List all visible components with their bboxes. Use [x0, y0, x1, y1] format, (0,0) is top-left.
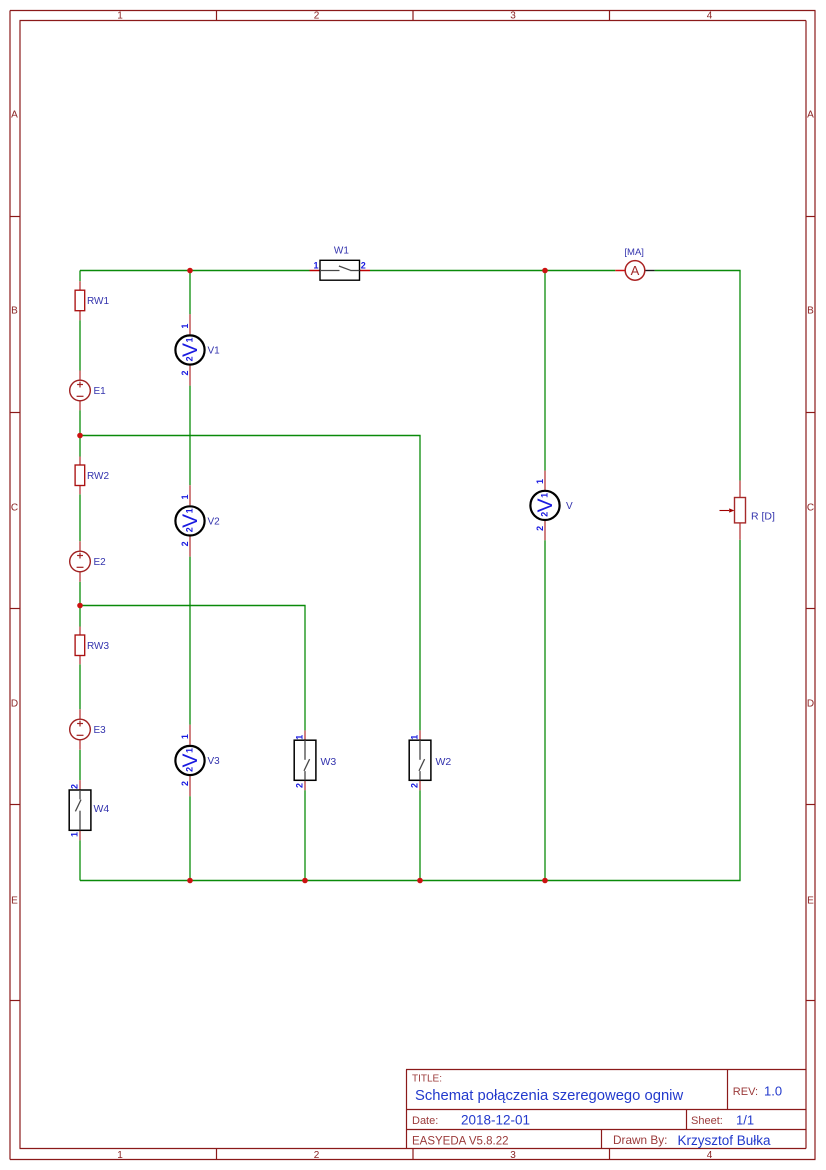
svg-text:RW1: RW1	[87, 296, 109, 307]
svg-text:B: B	[807, 306, 814, 317]
svg-text:1: 1	[180, 324, 190, 329]
svg-text:W4: W4	[94, 803, 110, 815]
voltmeter V1	[175, 314, 220, 385]
junction left wire at rail2	[77, 433, 83, 439]
svg-text:3: 3	[510, 11, 516, 22]
svg-text:A: A	[807, 110, 814, 121]
svg-text:E2: E2	[94, 557, 107, 568]
svg-text:V: V	[566, 501, 573, 512]
wire top rail left segment	[80, 270, 310, 272]
svg-text:V3: V3	[208, 756, 221, 767]
wire W2 column: rail2 to W2	[419, 436, 421, 731]
junction top rail at x=545	[542, 268, 548, 274]
svg-text:W2: W2	[436, 756, 452, 768]
wire rail2 horizontal	[80, 435, 421, 437]
svg-text:R [D]: R [D]	[751, 511, 775, 523]
svg-text:RW3: RW3	[87, 641, 109, 652]
svg-text:1: 1	[409, 735, 419, 740]
junction bottom rail at x=545	[542, 878, 548, 884]
svg-text:2: 2	[184, 767, 194, 772]
wire left column: RW3 to E3	[79, 664, 81, 709]
voltmeter V2	[175, 485, 220, 556]
svg-text:1: 1	[540, 493, 550, 498]
svg-text:1: 1	[180, 734, 190, 739]
svg-text:2: 2	[409, 783, 419, 788]
svg-text:Krzysztof Bułka: Krzysztof Bułka	[678, 1133, 772, 1148]
wire left column: top rail to RW1	[79, 271, 81, 282]
resistor RW1	[75, 281, 109, 320]
resistor RW2	[75, 457, 109, 495]
svg-text:Sheet:: Sheet:	[691, 1115, 723, 1127]
svg-text:1/1: 1/1	[736, 1112, 754, 1127]
svg-text:E1: E1	[94, 386, 107, 397]
wire right column: R [D] to bottom rail	[739, 540, 741, 881]
svg-text:1: 1	[294, 735, 304, 740]
wire left column: RW2 to E2	[79, 494, 81, 541]
svg-text:2018-12-01: 2018-12-01	[461, 1112, 530, 1127]
frame zone ticks bottom band	[217, 1149, 610, 1160]
svg-text:W1: W1	[334, 246, 349, 257]
svg-text:V: V	[534, 498, 557, 512]
frame zone ticks top band	[217, 11, 610, 21]
frame zone labels right	[807, 110, 814, 907]
svg-text:1: 1	[180, 494, 190, 499]
wire top rail right segment	[655, 270, 741, 272]
battery cell E2	[70, 541, 106, 582]
svg-text:RW2: RW2	[87, 471, 109, 482]
resistor RW3	[75, 627, 109, 665]
wire meter column: V1 to V2	[189, 386, 191, 486]
voltmeter V	[530, 471, 573, 541]
frame zone ticks right band	[806, 217, 816, 1001]
svg-text:[MA]: [MA]	[624, 247, 644, 258]
battery cell E3	[70, 709, 106, 750]
svg-text:D: D	[11, 699, 18, 710]
svg-text:2: 2	[314, 1150, 320, 1161]
wire left column: E1 to RW2 through node rail2	[79, 410, 81, 456]
wire left column: E2 to RW3 through node rail3	[79, 582, 81, 627]
ammeter [MA]	[615, 247, 654, 280]
svg-text:2: 2	[294, 783, 304, 788]
svg-text:W3: W3	[321, 756, 337, 768]
frame zone ticks left band	[10, 217, 20, 1001]
svg-text:Date:: Date:	[412, 1115, 438, 1127]
junction left wire at rail3	[77, 603, 83, 609]
svg-text:E: E	[11, 896, 18, 907]
junction bottom rail at x=190	[187, 878, 193, 884]
wire meter column: V2 to V3	[189, 557, 191, 725]
svg-text:1: 1	[185, 337, 195, 342]
rheostat R [D]	[720, 481, 776, 540]
svg-text:V: V	[179, 753, 202, 767]
battery cell E1	[70, 371, 106, 411]
wire left column: W4 to bottom rail	[79, 840, 81, 880]
svg-text:2: 2	[535, 526, 545, 531]
svg-text:1: 1	[185, 508, 195, 513]
wire W2 column: W2 to bottom rail	[419, 790, 421, 880]
svg-text:2: 2	[314, 11, 320, 22]
svg-text:1: 1	[313, 261, 318, 271]
svg-text:1: 1	[117, 1150, 123, 1161]
wire meter column: V3 to bottom rail	[189, 796, 191, 880]
svg-text:REV:: REV:	[733, 1086, 758, 1098]
svg-text:2: 2	[184, 356, 194, 361]
wire right column: top rail to R [D]	[739, 271, 741, 481]
svg-text:1: 1	[535, 479, 545, 484]
svg-text:4: 4	[707, 11, 713, 22]
svg-text:1: 1	[117, 11, 123, 22]
svg-text:C: C	[807, 503, 814, 514]
svg-text:V2: V2	[208, 516, 221, 527]
svg-text:2: 2	[184, 527, 194, 532]
svg-text:4: 4	[707, 1150, 713, 1161]
svg-text:1: 1	[185, 748, 195, 753]
title block outline	[406, 1070, 806, 1149]
wire rail3 horizontal	[80, 605, 306, 607]
svg-text:V1: V1	[208, 346, 221, 357]
wire left column: RW1 to E1	[79, 320, 81, 370]
wire V column: top rail to V meter	[544, 271, 546, 471]
svg-text:1.0: 1.0	[764, 1083, 782, 1098]
switch W2	[409, 730, 451, 790]
svg-text:3: 3	[510, 1150, 516, 1161]
svg-text:2: 2	[180, 370, 190, 375]
wire meter column: top rail to V1	[189, 271, 191, 315]
frame zone labels left	[11, 110, 18, 907]
frame zone labels top	[117, 11, 713, 22]
svg-text:D: D	[807, 699, 814, 710]
svg-text:V: V	[179, 343, 202, 357]
switch W3	[294, 730, 336, 790]
wire W3 column: rail3 to W3	[304, 606, 306, 731]
switch W4	[69, 780, 109, 840]
wire V column: V meter to bottom rail	[544, 540, 546, 880]
frame zone labels bottom	[117, 1150, 713, 1161]
svg-text:2: 2	[69, 784, 79, 789]
wire bottom rail	[80, 880, 741, 882]
svg-text:Drawn By:: Drawn By:	[613, 1133, 667, 1147]
svg-text:B: B	[11, 306, 18, 317]
junction bottom rail at x=305	[302, 878, 308, 884]
wire left column: E3 to W4	[79, 750, 81, 780]
svg-text:2: 2	[180, 781, 190, 786]
svg-text:2: 2	[361, 261, 366, 271]
svg-text:TITLE:: TITLE:	[412, 1074, 442, 1085]
svg-text:1: 1	[69, 832, 79, 837]
wire top rail middle segment	[370, 270, 615, 272]
wire W3 column: W3 to bottom rail	[304, 790, 306, 880]
switch W1	[310, 246, 371, 281]
svg-text:C: C	[11, 503, 18, 514]
svg-text:2: 2	[539, 512, 549, 517]
svg-text:E: E	[807, 896, 814, 907]
junction bottom rail at x=420	[417, 878, 423, 884]
svg-text:A: A	[11, 110, 18, 121]
svg-text:Schemat połączenia szeregowego: Schemat połączenia szeregowego ogniw	[415, 1088, 683, 1104]
svg-text:EASYEDA V5.8.22: EASYEDA V5.8.22	[412, 1136, 509, 1148]
svg-text:V: V	[179, 514, 202, 528]
svg-text:E3: E3	[94, 725, 107, 736]
voltmeter V3	[175, 725, 220, 796]
svg-text:A: A	[631, 263, 640, 278]
junction top rail at x=190	[187, 268, 193, 274]
svg-text:2: 2	[180, 541, 190, 546]
